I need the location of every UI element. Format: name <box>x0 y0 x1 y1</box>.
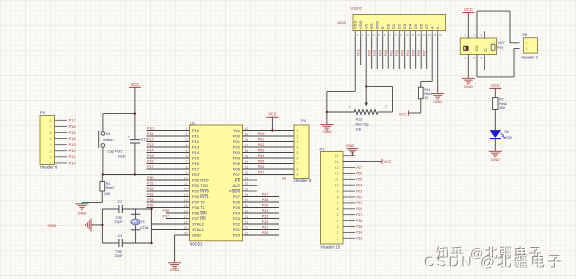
svg-text:P07: P07 <box>258 171 265 175</box>
svg-text:7: 7 <box>50 125 52 129</box>
svg-text:14: 14 <box>335 160 339 164</box>
svg-text:VCC: VCC <box>130 82 139 87</box>
svg-text:P3: P3 <box>40 110 46 115</box>
svg-text:10: 10 <box>335 184 339 188</box>
svg-text:P9: P9 <box>282 177 286 181</box>
svg-text:P06: P06 <box>356 172 362 176</box>
svg-text:3: 3 <box>297 140 299 144</box>
svg-text:A: A <box>430 26 435 29</box>
svg-text:6: 6 <box>50 131 52 135</box>
svg-text:P14: P14 <box>69 136 77 141</box>
svg-text:11: 11 <box>335 178 339 182</box>
svg-text:VCC: VCC <box>384 160 392 164</box>
svg-text:R7: R7 <box>499 97 503 101</box>
svg-text:P04: P04 <box>258 154 265 158</box>
svg-text:P21: P21 <box>233 227 241 232</box>
svg-text:P00: P00 <box>356 207 362 211</box>
svg-text:1: 1 <box>526 41 528 45</box>
svg-text:R/W: R/W <box>375 21 380 29</box>
svg-text:P16: P16 <box>147 160 154 164</box>
svg-text:4: 4 <box>297 146 299 150</box>
svg-text:D5: D5 <box>413 23 418 29</box>
svg-text:6: 6 <box>337 207 339 211</box>
svg-text:16: 16 <box>439 33 443 37</box>
svg-text:1: 1 <box>337 237 339 241</box>
svg-text:8: 8 <box>337 195 339 199</box>
svg-text:P13: P13 <box>147 143 154 147</box>
svg-text:P16: P16 <box>192 161 200 166</box>
svg-text:P12: P12 <box>192 139 200 144</box>
svg-text:R1: R1 <box>106 182 111 186</box>
svg-text:P1: P1 <box>320 146 326 151</box>
svg-text:102Y: 102Y <box>497 41 505 45</box>
svg-text:LED0: LED0 <box>504 136 513 140</box>
svg-text:GND: GND <box>48 223 57 228</box>
svg-text:Y1: Y1 <box>141 220 145 224</box>
svg-text:11: 11 <box>411 33 414 37</box>
svg-text:XTAL2: XTAL2 <box>192 222 205 227</box>
svg-text:2: 2 <box>50 155 52 159</box>
svg-text:Cap: Cap <box>116 249 123 253</box>
svg-text:15: 15 <box>335 154 339 158</box>
svg-text:4: 4 <box>50 143 52 147</box>
svg-text:D2: D2 <box>397 23 402 29</box>
svg-text:P11: P11 <box>69 154 77 159</box>
svg-text:P06: P06 <box>417 50 421 56</box>
svg-text:P01: P01 <box>356 201 362 205</box>
svg-text:P13: P13 <box>69 142 77 147</box>
svg-text:P24: P24 <box>379 50 383 56</box>
svg-text:P26: P26 <box>262 198 269 202</box>
svg-text:Header 15: Header 15 <box>321 245 341 250</box>
svg-text:5: 5 <box>297 151 299 155</box>
svg-text:R13: R13 <box>356 117 363 121</box>
svg-text:12: 12 <box>417 33 421 37</box>
svg-text:P22: P22 <box>233 222 241 227</box>
svg-text:Cap: Cap <box>116 215 123 219</box>
svg-text:D6: D6 <box>419 23 424 29</box>
svg-text:P03: P03 <box>258 149 265 153</box>
svg-text:2: 2 <box>526 47 528 51</box>
svg-text:10: 10 <box>424 96 428 100</box>
svg-text:P20: P20 <box>233 233 241 238</box>
svg-text:GND: GND <box>433 99 442 104</box>
svg-text:P36: P36 <box>356 219 362 223</box>
svg-text:K: K <box>435 26 440 29</box>
svg-text:Vcc: Vcc <box>233 128 240 133</box>
svg-text:P35: P35 <box>356 225 362 229</box>
svg-text:18: 18 <box>184 221 188 225</box>
svg-text:P31 TXD: P31 TXD <box>192 183 208 188</box>
svg-text:C3: C3 <box>118 234 123 238</box>
svg-text:VDD: VDD <box>358 20 363 29</box>
svg-text:P17: P17 <box>147 165 154 169</box>
svg-text:9: 9 <box>337 190 339 194</box>
svg-text:P37: P37 <box>356 213 362 217</box>
svg-text:P06: P06 <box>258 165 265 169</box>
svg-text:P20: P20 <box>262 231 269 235</box>
svg-text:GND: GND <box>464 84 473 89</box>
svg-text:22pF: 22pF <box>115 220 124 224</box>
svg-text:P10: P10 <box>69 160 77 165</box>
svg-text:P23: P23 <box>262 215 269 219</box>
svg-text:P37: P37 <box>163 215 170 219</box>
svg-text:RS: RS <box>369 23 374 29</box>
svg-text:U1: U1 <box>190 121 196 126</box>
svg-text:2: 2 <box>297 135 299 139</box>
svg-text:P10: P10 <box>192 128 200 133</box>
svg-text:89C51: 89C51 <box>190 241 203 246</box>
svg-text:XTAL: XTAL <box>140 226 149 230</box>
svg-text:D6: D6 <box>505 130 509 134</box>
svg-text:P13: P13 <box>192 145 200 150</box>
svg-text:9: 9 <box>186 171 188 175</box>
svg-text:Header 9: Header 9 <box>294 178 312 183</box>
svg-text:P05: P05 <box>412 50 416 56</box>
svg-text:P34: P34 <box>147 198 154 202</box>
svg-text:P15: P15 <box>147 154 154 158</box>
svg-text:Header 2: Header 2 <box>522 55 539 60</box>
svg-text:S4: S4 <box>106 132 110 136</box>
svg-text:V0: V0 <box>364 23 369 29</box>
svg-text:P30 RXD: P30 RXD <box>192 178 209 183</box>
svg-text:P04: P04 <box>406 50 410 56</box>
svg-text:12: 12 <box>335 172 339 176</box>
svg-text:7: 7 <box>297 162 299 166</box>
svg-text:CSDN @北疆电子: CSDN @北疆电子 <box>425 255 565 272</box>
svg-text:E: E <box>380 26 385 29</box>
svg-text:P01: P01 <box>233 139 241 144</box>
svg-text:ALE: ALE <box>232 183 240 188</box>
svg-text:P27: P27 <box>262 193 269 197</box>
svg-text:P25: P25 <box>262 204 269 208</box>
svg-text:P01: P01 <box>258 138 265 142</box>
svg-text:P03: P03 <box>233 150 241 155</box>
svg-text:19: 19 <box>184 226 188 230</box>
svg-text:P04: P04 <box>356 184 362 188</box>
svg-text:5: 5 <box>337 213 339 217</box>
svg-text:button: button <box>104 138 114 142</box>
svg-text:VCC: VCC <box>268 111 277 116</box>
svg-text:13: 13 <box>422 33 426 37</box>
svg-text:D1: D1 <box>391 23 396 29</box>
svg-text:P05: P05 <box>258 160 265 164</box>
svg-text:GND: GND <box>322 129 331 134</box>
svg-text:P15: P15 <box>69 130 77 135</box>
svg-text:480: 480 <box>499 106 505 110</box>
svg-text:10K: 10K <box>104 192 111 196</box>
svg-text:1: 1 <box>50 161 52 165</box>
svg-text:D3: D3 <box>402 23 407 29</box>
svg-text:15: 15 <box>433 33 437 37</box>
svg-text:P00: P00 <box>384 50 388 56</box>
svg-text:P16: P16 <box>69 124 77 129</box>
svg-text:10uF: 10uF <box>118 154 127 158</box>
svg-text:Key: Key <box>497 46 503 50</box>
svg-text:P22: P22 <box>262 220 269 224</box>
svg-text:Res Tap: Res Tap <box>356 122 369 126</box>
svg-text:P30: P30 <box>147 176 154 180</box>
svg-text:8: 8 <box>50 119 52 123</box>
svg-text:VCC: VCC <box>399 112 407 116</box>
svg-text:10k: 10k <box>356 128 362 132</box>
svg-text:VCC: VCC <box>464 7 473 12</box>
svg-text:P25: P25 <box>373 50 377 56</box>
svg-text:10: 10 <box>406 33 410 37</box>
svg-text:VSS: VSS <box>353 21 358 29</box>
svg-text:7: 7 <box>337 201 339 205</box>
svg-text:P02: P02 <box>233 145 241 150</box>
svg-text:P23: P23 <box>233 216 241 221</box>
svg-text:14: 14 <box>428 33 432 37</box>
svg-text:4: 4 <box>337 219 339 223</box>
svg-text:GND: GND <box>192 233 201 238</box>
svg-text:Res2: Res2 <box>106 186 114 190</box>
svg-text:+: + <box>127 135 129 139</box>
svg-text:P33: P33 <box>356 237 362 241</box>
svg-text:P33: P33 <box>147 193 154 197</box>
svg-text:P14: P14 <box>147 149 154 153</box>
svg-text:D4: D4 <box>408 23 413 29</box>
svg-text:P00: P00 <box>258 132 265 136</box>
svg-text:P07: P07 <box>233 172 241 177</box>
svg-text:P02: P02 <box>395 50 399 56</box>
svg-text:D7: D7 <box>424 23 429 29</box>
svg-text:P14: P14 <box>192 150 200 155</box>
svg-text:6: 6 <box>297 157 299 161</box>
svg-text:P6: P6 <box>523 33 528 37</box>
svg-text:P31: P31 <box>147 182 154 186</box>
svg-text:Res2: Res2 <box>499 102 507 106</box>
svg-text:GND: GND <box>170 267 179 272</box>
svg-text:GND: GND <box>491 157 500 162</box>
svg-text:P02: P02 <box>258 143 265 147</box>
svg-text:C1: C1 <box>118 200 123 204</box>
svg-text:P4: P4 <box>301 118 307 123</box>
svg-text:P01: P01 <box>390 50 394 56</box>
svg-text:5: 5 <box>50 137 52 141</box>
svg-text:P15: P15 <box>192 156 200 161</box>
svg-text:D0: D0 <box>386 23 391 29</box>
svg-text:XTAL1: XTAL1 <box>192 227 205 232</box>
svg-text:8: 8 <box>297 168 299 172</box>
svg-text:g: g <box>484 47 487 52</box>
svg-text:2: 2 <box>385 105 387 109</box>
svg-text:P27: P27 <box>233 194 241 199</box>
svg-text:U1602: U1602 <box>351 7 362 11</box>
svg-text:Cap Pol1: Cap Pol1 <box>108 149 123 153</box>
svg-text:RST: RST <box>192 172 201 177</box>
svg-text:3: 3 <box>50 149 52 153</box>
svg-text:VCC: VCC <box>357 48 361 56</box>
svg-text:P34: P34 <box>356 231 362 235</box>
svg-text:3: 3 <box>337 225 339 229</box>
svg-text:P06: P06 <box>233 167 241 172</box>
svg-text:P32: P32 <box>147 187 154 191</box>
svg-text:P24: P24 <box>262 209 269 213</box>
svg-text:P17: P17 <box>69 118 77 123</box>
svg-text:P12: P12 <box>69 148 77 153</box>
svg-text:P11: P11 <box>192 134 200 139</box>
svg-text:P35 T1: P35 T1 <box>192 205 206 210</box>
svg-text:P34 T0: P34 T0 <box>192 200 206 205</box>
svg-text:P05: P05 <box>356 178 362 182</box>
svg-text:P07: P07 <box>423 50 427 56</box>
svg-text:GND: GND <box>78 210 87 215</box>
svg-text:P03: P03 <box>356 189 362 193</box>
svg-text:P11: P11 <box>147 132 153 136</box>
svg-text:P02: P02 <box>356 195 362 199</box>
svg-text:P36: P36 <box>163 209 170 213</box>
svg-text:103: 103 <box>475 46 479 52</box>
svg-text:P26: P26 <box>233 200 241 205</box>
svg-text:P26: P26 <box>368 50 372 56</box>
svg-text:P21: P21 <box>262 226 269 230</box>
svg-text:2: 2 <box>337 231 339 235</box>
svg-text:VCC: VCC <box>491 83 500 88</box>
svg-text:P12: P12 <box>147 138 154 142</box>
svg-text:P25: P25 <box>233 205 241 210</box>
svg-text:22pF: 22pF <box>115 254 124 258</box>
svg-text:P05: P05 <box>233 161 241 166</box>
svg-text:P17: P17 <box>192 167 200 172</box>
svg-text:1: 1 <box>349 105 351 109</box>
svg-text:9: 9 <box>297 173 299 177</box>
svg-text:13: 13 <box>335 166 339 170</box>
svg-text:1602: 1602 <box>337 20 347 25</box>
svg-text:P00: P00 <box>233 134 241 139</box>
svg-text:P10: P10 <box>147 127 154 131</box>
svg-text:P24: P24 <box>233 211 241 216</box>
svg-text:P35: P35 <box>147 204 154 208</box>
svg-text:P07: P07 <box>356 166 362 170</box>
svg-text:GND: GND <box>346 144 355 148</box>
svg-text:1: 1 <box>297 129 299 133</box>
svg-text:P03: P03 <box>401 50 405 56</box>
svg-text:P04: P04 <box>233 156 241 161</box>
